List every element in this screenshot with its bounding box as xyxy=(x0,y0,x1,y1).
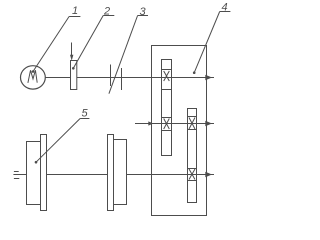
svg-text:3: 3 xyxy=(139,6,146,18)
svg-text:5: 5 xyxy=(81,108,88,120)
svg-text:2: 2 xyxy=(103,6,110,18)
svg-text:1: 1 xyxy=(72,5,78,17)
svg-text:4: 4 xyxy=(221,1,227,13)
